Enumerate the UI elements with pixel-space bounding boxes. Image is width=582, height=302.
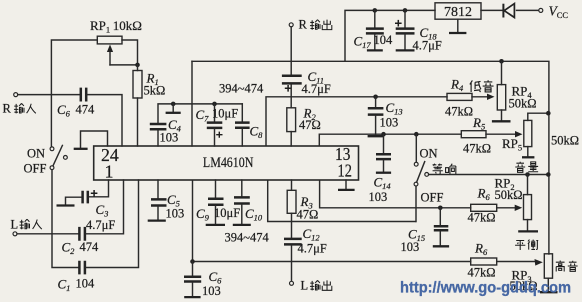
wire treble feed line from IC pin to R6 bbox=[193, 180, 471, 262]
capacitor C2 474 series bbox=[62, 180, 124, 256]
capacitor C4 103 bbox=[150, 104, 191, 146]
resistor R1 5k bbox=[133, 65, 165, 146]
svg-text:ON: ON bbox=[420, 147, 438, 161]
ground pin 12 bottom-right bbox=[338, 180, 355, 190]
potentiometer RP1 10k bbox=[90, 18, 142, 65]
wire ground bus C4 to C8 bbox=[193, 103, 242, 105]
label treble bbox=[556, 261, 578, 272]
potentiometer RP2 50k balance bbox=[495, 175, 539, 232]
node junction C18 on top rail bbox=[403, 8, 408, 13]
svg-text:47kΩ: 47kΩ bbox=[468, 211, 496, 225]
capacitor C10 bbox=[233, 180, 263, 225]
svg-text:OFF: OFF bbox=[421, 191, 444, 205]
resistor R3 47 ohm bbox=[287, 180, 318, 238]
capacitor C15 103 bbox=[401, 208, 450, 254]
potentiometer RP5 50k volume bbox=[502, 113, 579, 157]
wire L input line bbox=[17, 233, 78, 235]
wire 7812 output to diode bbox=[481, 9, 504, 11]
svg-text:474: 474 bbox=[80, 240, 100, 254]
terminal L input bbox=[11, 218, 42, 236]
wire R input riser to RP1 bbox=[51, 40, 97, 95]
svg-text:103: 103 bbox=[401, 240, 420, 254]
resistor R5 47k bbox=[461, 115, 522, 156]
resistor R2 47 ohm bbox=[287, 106, 321, 147]
switch S1 R input on-off bbox=[24, 95, 68, 234]
svg-text:103: 103 bbox=[202, 284, 221, 298]
node junction RP1 wiper and R1 bbox=[135, 63, 140, 68]
svg-text:12: 12 bbox=[338, 161, 352, 181]
svg-text:47Ω: 47Ω bbox=[297, 208, 319, 222]
node junction C16 on treble feed line bbox=[190, 259, 195, 264]
svg-text:http://www.go-gddq.com: http://www.go-gddq.com bbox=[400, 280, 571, 297]
svg-text:394~474: 394~474 bbox=[225, 231, 270, 245]
node junction RP5 branch on right rail bbox=[546, 111, 551, 116]
capacitor C1 104 series bbox=[52, 180, 139, 293]
wire loudness line switch to RP2 top rail bbox=[429, 174, 549, 176]
svg-text:ON: ON bbox=[27, 147, 45, 161]
wire R output column bbox=[290, 27, 292, 75]
potentiometer RP3 50k treble bbox=[510, 254, 558, 293]
resistor R6 47k balance bbox=[468, 186, 523, 225]
capacitor C18 4.7uF electrolytic bbox=[395, 10, 442, 52]
node junction RP4 top on V+ rail bbox=[499, 59, 504, 64]
wire balance feed OFF line from IC pin to R6 bbox=[320, 180, 471, 208]
capacitor C16 103 bbox=[184, 262, 222, 299]
label volume bbox=[515, 162, 538, 173]
wire V+ horizontal rail to pot supplies bbox=[192, 61, 549, 254]
capacitor C7 10uF electrolytic bbox=[196, 104, 239, 146]
capacitor C6 474 series bbox=[57, 88, 122, 146]
capacitor C13 103 bbox=[368, 97, 403, 136]
capacitor C12 4.7uF electrolytic bbox=[284, 226, 327, 281]
svg-text:R: R bbox=[3, 102, 12, 116]
node junction loudness switch top on volume feed line bbox=[414, 132, 419, 137]
resistor R4 47k bbox=[445, 77, 495, 119]
svg-text:RP1 10kΩ: RP1 10kΩ bbox=[90, 18, 142, 35]
svg-text:L: L bbox=[11, 218, 19, 232]
svg-text:LM4610N: LM4610N bbox=[203, 155, 254, 171]
svg-text:10μF: 10μF bbox=[212, 107, 238, 121]
svg-text:4.7μF: 4.7μF bbox=[302, 82, 331, 96]
capacitor C5 103 bbox=[148, 180, 185, 221]
svg-text:1: 1 bbox=[105, 162, 114, 182]
op-amp U1 LM4610N bbox=[94, 146, 359, 180]
svg-text:4.7μF: 4.7μF bbox=[298, 242, 327, 256]
wire V+ top rail from IC supply column to 7812 input bbox=[345, 10, 435, 61]
svg-text:104: 104 bbox=[374, 33, 394, 47]
node junction ground tap on C4 bus bbox=[171, 102, 176, 107]
ground on C4 bus bbox=[166, 104, 181, 113]
capacitor C14 103 bbox=[369, 134, 392, 204]
potentiometer RP4 50k bass bbox=[492, 61, 537, 121]
node junction C15 on OFF line bbox=[438, 206, 443, 211]
node junction loudness line on right rail bbox=[546, 172, 551, 177]
node junction C7 on ground bus bbox=[212, 102, 217, 107]
label loudness bbox=[433, 164, 456, 175]
svg-text:L: L bbox=[301, 279, 309, 293]
capacitor C9 10uF electrolytic bbox=[196, 180, 240, 225]
node junction C14 on volume feed line bbox=[381, 132, 386, 137]
svg-text:47kΩ: 47kΩ bbox=[468, 266, 496, 280]
svg-text:50kΩ: 50kΩ bbox=[551, 134, 579, 148]
svg-text:10μF: 10μF bbox=[214, 206, 240, 220]
svg-text:103: 103 bbox=[369, 190, 388, 204]
resistor R6 47k treble bbox=[468, 241, 543, 280]
diode D1 bbox=[503, 4, 514, 18]
terminal R output bbox=[289, 18, 332, 32]
terminal Vcc bbox=[539, 4, 569, 21]
svg-text:104: 104 bbox=[76, 277, 96, 291]
switch S2 loudness bbox=[414, 134, 443, 221]
capacitor C8 bbox=[235, 104, 263, 146]
capacitor C17 104 bbox=[354, 10, 394, 50]
terminal R input bbox=[3, 93, 36, 116]
svg-text:47Ω: 47Ω bbox=[299, 118, 321, 132]
wire bass feed line from IC pin to R4 bbox=[266, 97, 447, 146]
label bass bbox=[470, 80, 494, 92]
wire diode to Vcc terminal bbox=[517, 9, 539, 11]
svg-text:47kΩ: 47kΩ bbox=[463, 142, 491, 156]
label balance bbox=[515, 240, 538, 250]
regulator U2 7812 bbox=[435, 3, 481, 20]
wire V+ supply pin column bbox=[191, 61, 193, 146]
node junction C13 on bass feed line bbox=[373, 95, 378, 100]
svg-text:50kΩ: 50kΩ bbox=[509, 97, 537, 111]
ground under 7812 bbox=[449, 19, 466, 33]
capacitor C11 4.7uF electrolytic bbox=[282, 69, 331, 108]
terminal L output bbox=[290, 279, 332, 293]
svg-text:474: 474 bbox=[76, 103, 96, 117]
svg-text:394~474: 394~474 bbox=[219, 82, 264, 96]
svg-text:103: 103 bbox=[380, 116, 399, 130]
svg-text:5kΩ: 5kΩ bbox=[144, 84, 166, 98]
svg-text:4.7μF: 4.7μF bbox=[413, 39, 442, 53]
svg-text:103: 103 bbox=[160, 131, 179, 145]
svg-text:4.7μF: 4.7μF bbox=[86, 218, 115, 232]
svg-text:50kΩ: 50kΩ bbox=[495, 188, 523, 202]
node junction RP2 top bbox=[525, 172, 530, 177]
ground pin 24 top-left bbox=[74, 131, 108, 149]
capacitor C3 4.7uF electrolytic bbox=[57, 180, 116, 232]
wire volume feed line from IC pin to R5 bbox=[319, 134, 461, 146]
svg-text:OFF: OFF bbox=[24, 162, 47, 176]
svg-text:7812: 7812 bbox=[444, 5, 472, 20]
svg-text:103: 103 bbox=[166, 207, 185, 221]
svg-text:47kΩ: 47kΩ bbox=[445, 105, 473, 119]
wire R input line bbox=[18, 94, 80, 96]
svg-text:R: R bbox=[299, 18, 308, 32]
node junction C17 on top rail bbox=[373, 8, 378, 13]
wire loudness switch bottom line to IC pin bbox=[268, 180, 416, 222]
